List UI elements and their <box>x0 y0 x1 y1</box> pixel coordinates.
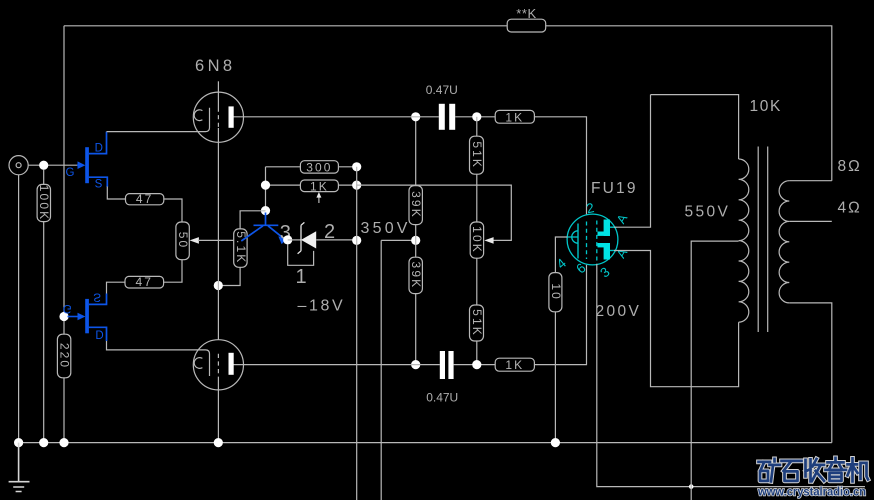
wire: 100K bottom to ground rail <box>43 222 45 443</box>
grid (dashed) V1b <box>217 354 219 377</box>
plate V1b <box>229 353 234 375</box>
svg-text:10K: 10K <box>470 226 484 254</box>
wire: 10 ohm to ground rail <box>554 312 556 443</box>
tube V1a 6N8 upper triode <box>193 57 243 340</box>
wire: pin3 screen to 200V run <box>597 264 865 487</box>
node: 1K left junction <box>261 181 270 190</box>
svg-text:39K: 39K <box>409 262 423 290</box>
node: rail-100K <box>39 438 48 447</box>
grid g1 (dashed cyan) <box>586 222 588 260</box>
node: base feed junction <box>261 206 270 215</box>
wire: 5.1K bottom to cathode bus <box>218 267 240 285</box>
wire: 1K lower to FU19 pin6 <box>534 265 586 365</box>
svg-text:10K: 10K <box>750 98 782 115</box>
node: rail-jack <box>14 438 23 447</box>
wire: 10K pot to 51K lower <box>476 258 478 305</box>
svg-text:1K: 1K <box>505 110 524 124</box>
node: 350V / zener <box>352 236 361 245</box>
node: C1 / 51K <box>472 112 481 121</box>
node: cathode bus / 5.1K <box>214 281 223 290</box>
resistor R 220 <box>57 334 70 378</box>
wire: 300 right lead <box>338 166 356 168</box>
wire: 39K upper leads <box>415 117 417 257</box>
wire: secondary 8-ohm tap <box>789 180 832 182</box>
wire: 51K to 10K pot <box>476 174 478 222</box>
wire: 381 B+ drop to edge <box>380 240 382 500</box>
diode D1 TL431/zener <box>288 239 301 241</box>
node: 10 ohm / rail <box>551 438 560 447</box>
svg-text:220: 220 <box>57 343 71 369</box>
svg-text:51K: 51K <box>470 141 484 169</box>
resistor R 1K (top grid) <box>495 110 534 123</box>
wire: C1 to 1K grid stopper <box>455 116 495 118</box>
wire: top feedback rail from **K to right edge drop <box>546 26 832 181</box>
tube V2 FU19 <box>554 180 638 281</box>
wire: left vertical bus x=64 <box>63 26 65 334</box>
node: rail-220 <box>59 438 68 447</box>
resistor R 51K (upper) <box>476 117 478 136</box>
grid (dashed) V1a <box>217 108 219 129</box>
svg-text:8Ω: 8Ω <box>838 158 862 175</box>
resistor R-fb (**K) <box>507 19 546 32</box>
wire: 50 pot bottom to R47b <box>164 260 182 283</box>
wire: Q1 drain to V1a grid-element <box>107 131 206 133</box>
wire: 51K lower to bottom row <box>476 341 478 365</box>
wiper arrow of 50 pot <box>190 237 199 244</box>
node: feedback to Q2 gate <box>59 312 68 321</box>
node: 39K divider mid <box>411 236 420 245</box>
resistor R 300 <box>300 161 338 173</box>
svg-text:47: 47 <box>136 275 154 289</box>
plate V1a <box>229 106 234 127</box>
ground symbol <box>9 443 30 492</box>
input jack J1 <box>9 156 28 175</box>
svg-text:–18V: –18V <box>298 298 346 315</box>
node: cathode bus to rail <box>214 438 223 447</box>
svg-text:**K: **K <box>516 6 537 21</box>
svg-text:50: 50 <box>176 232 190 250</box>
wire: lower anode down to OPT primary bottom <box>614 251 739 387</box>
wire: primary center tap 550V <box>691 241 738 500</box>
wiper arrow of 10K pot <box>484 237 493 244</box>
wire: R47a to 50 pot top <box>164 199 182 222</box>
wire: 39K lower lead to bottom coupling row <box>415 294 417 365</box>
wire: V1b plate to C2 <box>234 364 440 366</box>
svg-text:200V: 200V <box>596 303 642 320</box>
svg-text:47: 47 <box>136 192 154 206</box>
resistor R 1K (trim) <box>300 180 338 192</box>
transistor Q2 lower MOSFET (blue, mirrored) <box>63 291 107 341</box>
wire: V1a plate to C1 <box>234 116 439 118</box>
wire: D1 anode to 350V node <box>316 239 357 241</box>
resistor R 1K (bottom grid) <box>495 358 534 371</box>
grid stub above V1a <box>217 81 219 107</box>
wire: primary top feed <box>651 95 739 159</box>
trimmer arrow on 1K <box>318 196 320 203</box>
svg-text:300: 300 <box>306 160 332 174</box>
grid g2 screen (dashed cyan) <box>596 221 598 261</box>
anode A lower (cyan bar) <box>604 243 610 260</box>
filament arc V2 <box>572 231 578 243</box>
svg-text:S: S <box>95 178 103 190</box>
wire: Q1 source down to R47a <box>107 187 125 200</box>
wire: feedback net 300/1K left vertical <box>265 167 267 211</box>
node: C2 / 51K lower <box>472 360 481 369</box>
OPT secondary winding <box>779 181 789 303</box>
wire: pot feedback run y=185 to 10K wiper drop <box>357 185 512 240</box>
tube V1b 6N8 lower triode <box>193 340 243 443</box>
wire: top feedback rail from border corner to **K <box>64 25 507 27</box>
resistor R 39K (lower) <box>409 257 422 293</box>
wire: upper anode to OPT primary top <box>614 95 651 228</box>
svg-text:0.47U: 0.47U <box>426 391 458 405</box>
transistor Q3 (blue overlay on TL431) <box>241 213 283 242</box>
svg-text:5.1K: 5.1K <box>234 231 248 264</box>
cathode element V1a <box>206 108 210 132</box>
wire: jack tip to gate node <box>28 164 77 166</box>
potentiometer R 10K <box>470 222 483 258</box>
wire: 5.1K top hook to base node <box>240 211 265 229</box>
ground rail (bottom bus) <box>19 442 832 444</box>
resistor R 100K <box>43 169 45 184</box>
wire: R47b to Q2 source <box>107 282 126 293</box>
node: input/grid-leak junction <box>39 161 48 170</box>
node: bottom row / 39K <box>411 360 420 369</box>
wire: jack sleeve to ground rail <box>18 175 20 443</box>
capacitor C2 0.47U <box>440 351 445 379</box>
wire: 1K left lead <box>266 184 301 186</box>
wire: C2 to 1K lower <box>454 364 496 366</box>
resistor R 39K (upper) <box>409 186 422 225</box>
svg-text:4Ω: 4Ω <box>838 200 862 217</box>
potentiometer R 50 <box>176 222 189 260</box>
svg-text:G: G <box>63 302 72 314</box>
capacitor C1 0.47U <box>439 104 445 130</box>
svg-text:10: 10 <box>549 283 563 301</box>
resistor R 47 (lower) <box>125 276 164 288</box>
OPT primary winding <box>739 159 749 322</box>
wire: 39K junction link <box>381 239 416 241</box>
svg-text:1K: 1K <box>310 179 329 193</box>
svg-text:www.crystalradio.cn: www.crystalradio.cn <box>757 486 866 499</box>
svg-text:550V: 550V <box>685 204 731 221</box>
transformer T1 output 10K <box>739 98 790 332</box>
node: 1K/357 bus <box>352 181 361 190</box>
resistor R 47 (upper) <box>126 194 164 205</box>
cathode element V1b <box>206 350 210 376</box>
svg-text:39K: 39K <box>409 191 423 219</box>
wire: 220 bottom to ground rail <box>63 378 65 443</box>
node: plate row / 39K top <box>411 112 420 121</box>
svg-text:S: S <box>93 291 101 303</box>
OPT core <box>758 147 768 333</box>
svg-text:350V: 350V <box>361 220 411 237</box>
anode A upper (cyan bar) <box>604 220 610 237</box>
svg-text:D: D <box>95 328 103 340</box>
wire: 357 bus down to edge <box>356 167 358 500</box>
wire: Q2 drain to V1b grid-element <box>107 341 206 350</box>
node: 300/357 bus <box>352 162 361 171</box>
svg-text:D: D <box>95 142 103 154</box>
svg-text:51K: 51K <box>470 309 484 337</box>
wire: secondary bottom to rail <box>789 303 832 443</box>
resistor R 51K (lower) <box>470 305 484 341</box>
wire: 1K right lead <box>338 184 356 186</box>
cathode line V2 <box>577 224 579 259</box>
svg-text:1K: 1K <box>505 358 524 372</box>
transistor Q1 upper MOSFET (blue) <box>66 132 108 191</box>
svg-text:1: 1 <box>296 266 307 288</box>
svg-text:G: G <box>66 167 75 179</box>
wire: pin4 filament to 10 ohm <box>555 237 567 273</box>
pin-1 return path of TL431 <box>288 244 314 265</box>
svg-text:6N8: 6N8 <box>195 57 235 75</box>
wire: 300 left lead <box>266 166 301 168</box>
resistor R 5.1K <box>234 229 247 267</box>
wire: secondary 4-ohm tap <box>789 220 832 222</box>
svg-text:100K: 100K <box>37 185 51 221</box>
svg-text:FU19: FU19 <box>591 180 638 197</box>
resistor R 10 <box>549 273 562 312</box>
svg-text:0.47U: 0.47U <box>426 83 458 97</box>
node: TL431 ref node <box>283 235 292 244</box>
wire: 1K to FU19 pin2 <box>534 117 586 215</box>
watermark logo (crystalradio) <box>759 458 869 482</box>
